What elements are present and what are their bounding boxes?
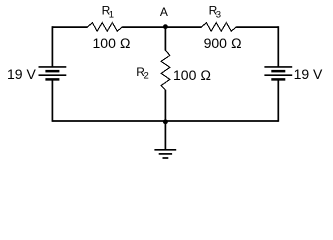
wire middle lower (R2 to bottom junction) [164,90,166,122]
wire top-left (battery to R1) [52,26,87,28]
wire right upper (corner to battery) [277,26,279,67]
resistor R2 [161,51,170,90]
battery right [264,67,292,79]
node A junction dot [163,24,168,29]
svg-text:A: A [160,5,168,19]
ground bar 1 [154,149,176,151]
svg-text:100 Ω: 100 Ω [93,35,131,51]
svg-text:100 Ω: 100 Ω [173,67,211,83]
ground stem [164,122,166,150]
ground bar 2 [159,153,172,155]
resistor R1 [88,23,123,32]
wire right lower (battery to bottom corner) [277,79,279,121]
wire middle upper (node A to R2) [164,27,166,51]
svg-text:900 Ω: 900 Ω [204,35,242,51]
wire left lower (battery to bottom corner) [51,79,53,121]
battery left [39,67,67,79]
wire bottom [52,120,278,122]
svg-text:19 V: 19 V [294,66,323,82]
wire top-middle (R1 to R3 through node A) [122,26,201,28]
resistor R3 [202,23,237,32]
junction dot bottom [163,119,168,124]
wire left upper (corner to battery) [51,26,53,67]
svg-text:19 V: 19 V [7,66,36,82]
wire top-right (R3 to right battery) [236,26,278,28]
ground bar 3 [163,157,169,159]
